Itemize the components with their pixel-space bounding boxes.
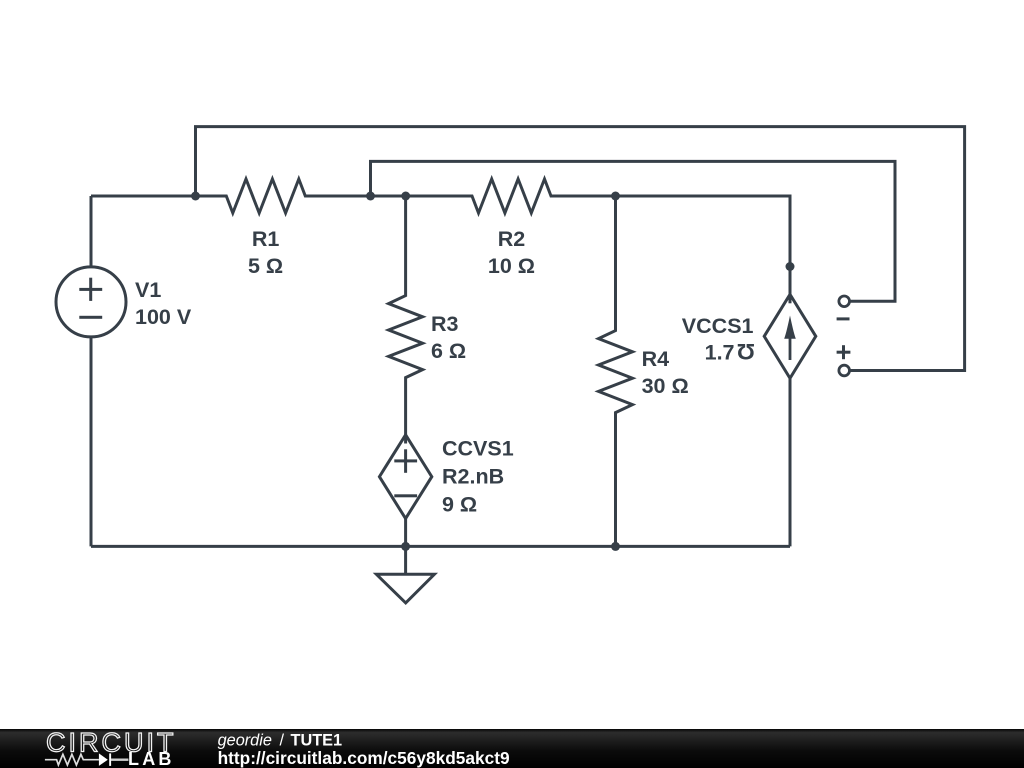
svg-text:geordie / TUTE1: geordie / TUTE1 — [218, 731, 342, 749]
node E dot (VCCS1 top terminal) — [786, 262, 795, 271]
svg-text:http://circuitlab.com/c56y8kd5: http://circuitlab.com/c56y8kd5akct9 — [218, 748, 510, 768]
V1 plus sign — [79, 288, 102, 291]
wire VCCS1 top lead — [789, 267, 792, 304]
svg-text:R3: R3 — [431, 312, 459, 336]
voltage source V1 circle — [56, 267, 126, 337]
svg-text:R1: R1 — [252, 227, 280, 251]
svg-text:VCCS1: VCCS1 — [682, 314, 754, 338]
terminal minus sign — [837, 317, 850, 320]
node A dot — [191, 192, 200, 201]
svg-text:10 Ω: 10 Ω — [488, 254, 535, 278]
V1 minus sign — [79, 316, 102, 319]
svg-text:R2.nB: R2.nB — [442, 465, 504, 489]
wire rail node B to R2 — [371, 195, 406, 198]
resistor R2 — [406, 179, 616, 213]
label VCCS1 mho symbol — [737, 339, 755, 364]
ground — [404, 546, 407, 574]
VCCS1 arrow — [789, 330, 792, 360]
resistor R3 — [389, 196, 423, 435]
wire V1 top stub — [90, 196, 93, 267]
node F dot (bottom rail / CCVS1) — [401, 542, 410, 551]
resistor R4 — [599, 196, 633, 546]
wire top rail — [196, 127, 965, 371]
wire VCCS1 bottom to bottom rail — [789, 378, 792, 546]
wire bottom rail — [91, 545, 790, 548]
svg-text:1.7: 1.7 — [705, 340, 735, 364]
wire second rail — [371, 161, 896, 301]
svg-text:R4: R4 — [642, 347, 670, 371]
dependent source VCCS1 diamond — [764, 294, 816, 378]
logo resistor squiggle — [45, 754, 99, 765]
wire CCVS1 top lead stub — [404, 435, 407, 444]
svg-text:V1: V1 — [135, 278, 161, 302]
svg-text:R2: R2 — [498, 227, 526, 251]
node G dot (bottom rail / R4) — [611, 542, 620, 551]
terminal plus — [839, 365, 850, 376]
svg-text:9 Ω: 9 Ω — [442, 493, 477, 517]
node C dot — [401, 192, 410, 201]
wire V1 bottom to bottom rail — [90, 337, 93, 547]
dependent source CCVS1 diamond — [379, 435, 431, 519]
terminal plus sign — [837, 351, 851, 354]
node D dot — [611, 192, 620, 201]
svg-text:LAB: LAB — [128, 749, 175, 768]
svg-text:Ω: Ω — [737, 339, 755, 364]
svg-text:30 Ω: 30 Ω — [642, 374, 689, 398]
svg-text:CCVS1: CCVS1 — [442, 437, 514, 461]
CCVS1 minus sign — [394, 494, 417, 497]
svg-text:5 Ω: 5 Ω — [248, 254, 283, 278]
svg-text:100 V: 100 V — [135, 305, 192, 329]
node B dot — [366, 192, 375, 201]
terminal minus — [839, 296, 850, 307]
logo diode — [99, 753, 108, 766]
wire CCVS1 bottom stub — [404, 519, 407, 547]
wire left from V1 to node A — [91, 195, 196, 198]
resistor R1 — [196, 179, 371, 213]
wire rail R2 right to VCCS corner — [616, 196, 791, 267]
CCVS1 plus sign — [394, 459, 417, 462]
svg-text:6 Ω: 6 Ω — [431, 339, 466, 363]
